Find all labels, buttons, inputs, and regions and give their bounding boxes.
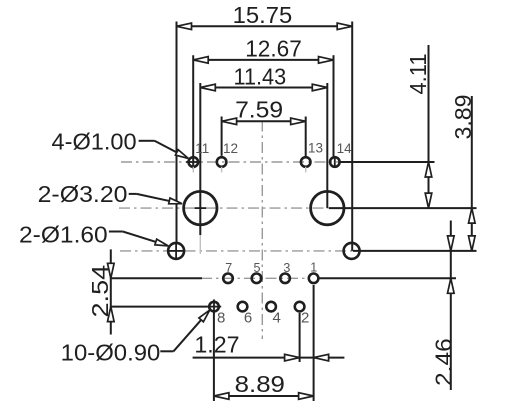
extension line from big hole row xyxy=(329,207,477,209)
hole 2 xyxy=(295,302,305,312)
svg-text:7.59: 7.59 xyxy=(235,97,283,123)
hole 12 xyxy=(217,157,227,172)
svg-text:7: 7 xyxy=(225,261,232,275)
svg-text:6: 6 xyxy=(244,309,252,326)
extension line from hole 14 row xyxy=(340,161,434,163)
hole 4 xyxy=(266,302,276,312)
hole 5 xyxy=(252,274,262,284)
svg-text:10-Ø0.90: 10-Ø0.90 xyxy=(61,340,161,366)
dimension 11.43 xyxy=(200,63,327,235)
svg-text:12.67: 12.67 xyxy=(245,36,302,62)
svg-text:5: 5 xyxy=(254,261,261,275)
dimension 8.89 xyxy=(214,285,314,401)
svg-text:4.11: 4.11 xyxy=(405,54,431,95)
hole 1 xyxy=(309,274,319,284)
svg-text:3: 3 xyxy=(283,261,290,275)
extension line from 1.60 hole row xyxy=(353,250,477,252)
hole 14 xyxy=(330,156,340,168)
svg-text:15.75: 15.75 xyxy=(233,2,293,28)
centerline vertical axis xyxy=(261,121,263,340)
svg-text:2-Ø3.20: 2-Ø3.20 xyxy=(38,181,128,207)
dimension 4.11 xyxy=(405,45,432,208)
svg-text:2-Ø1.60: 2-Ø1.60 xyxy=(19,221,108,247)
label 2-D1.60 with leader to 1.60 hole xyxy=(19,221,168,247)
dimension 12.67 xyxy=(193,36,333,169)
extension line row 8-6-4-2 left xyxy=(111,306,208,308)
big hole right 3.20 xyxy=(311,191,344,224)
svg-text:4: 4 xyxy=(273,309,281,326)
svg-text:11.43: 11.43 xyxy=(234,63,287,89)
extension line from hole 1 row xyxy=(319,277,456,279)
svg-text:11: 11 xyxy=(195,141,209,156)
big hole left 3.20 xyxy=(184,191,217,254)
svg-text:3.89: 3.89 xyxy=(450,95,476,140)
dimension 3.89 xyxy=(450,95,476,251)
svg-text:2.46: 2.46 xyxy=(430,338,456,386)
label 10-D0.90 with leader to hole 8 xyxy=(61,310,210,365)
hole 3 xyxy=(280,274,290,284)
hole 1.60 left xyxy=(168,243,184,259)
dimension 2.46 xyxy=(430,221,456,391)
svg-text:1: 1 xyxy=(310,261,317,275)
svg-text:8: 8 xyxy=(217,309,225,326)
centerline row holes 11-14 xyxy=(121,161,341,163)
centerline row big holes xyxy=(119,207,331,209)
hole 1.60 right xyxy=(344,243,360,259)
centerline row 1.60 holes xyxy=(120,250,354,252)
svg-text:1.27: 1.27 xyxy=(194,332,239,358)
svg-text:8.89: 8.89 xyxy=(235,371,285,397)
dimension 7.59 xyxy=(222,97,306,157)
svg-text:13: 13 xyxy=(308,140,323,155)
svg-text:12: 12 xyxy=(223,141,238,156)
dimension 1.27 xyxy=(193,313,345,362)
svg-text:2.54: 2.54 xyxy=(87,265,113,318)
label 2-D3.20 with leader to big hole xyxy=(38,181,182,207)
hole 11 xyxy=(186,157,200,172)
dimension 15.75 xyxy=(177,2,353,251)
hole 8 xyxy=(207,299,221,313)
svg-text:14: 14 xyxy=(337,141,353,156)
hole 6 xyxy=(238,302,248,312)
hole 13 xyxy=(301,157,311,172)
dimension 2.54 xyxy=(87,249,114,334)
label 4-D1.00 with leader to hole 11 xyxy=(52,128,189,158)
centerline row holes 7-5-3-1 xyxy=(201,277,308,279)
extension line row 7-5-3-1 left xyxy=(111,277,202,279)
hole 7 xyxy=(223,274,233,284)
svg-text:2: 2 xyxy=(301,309,309,326)
svg-text:4-Ø1.00: 4-Ø1.00 xyxy=(52,128,137,154)
